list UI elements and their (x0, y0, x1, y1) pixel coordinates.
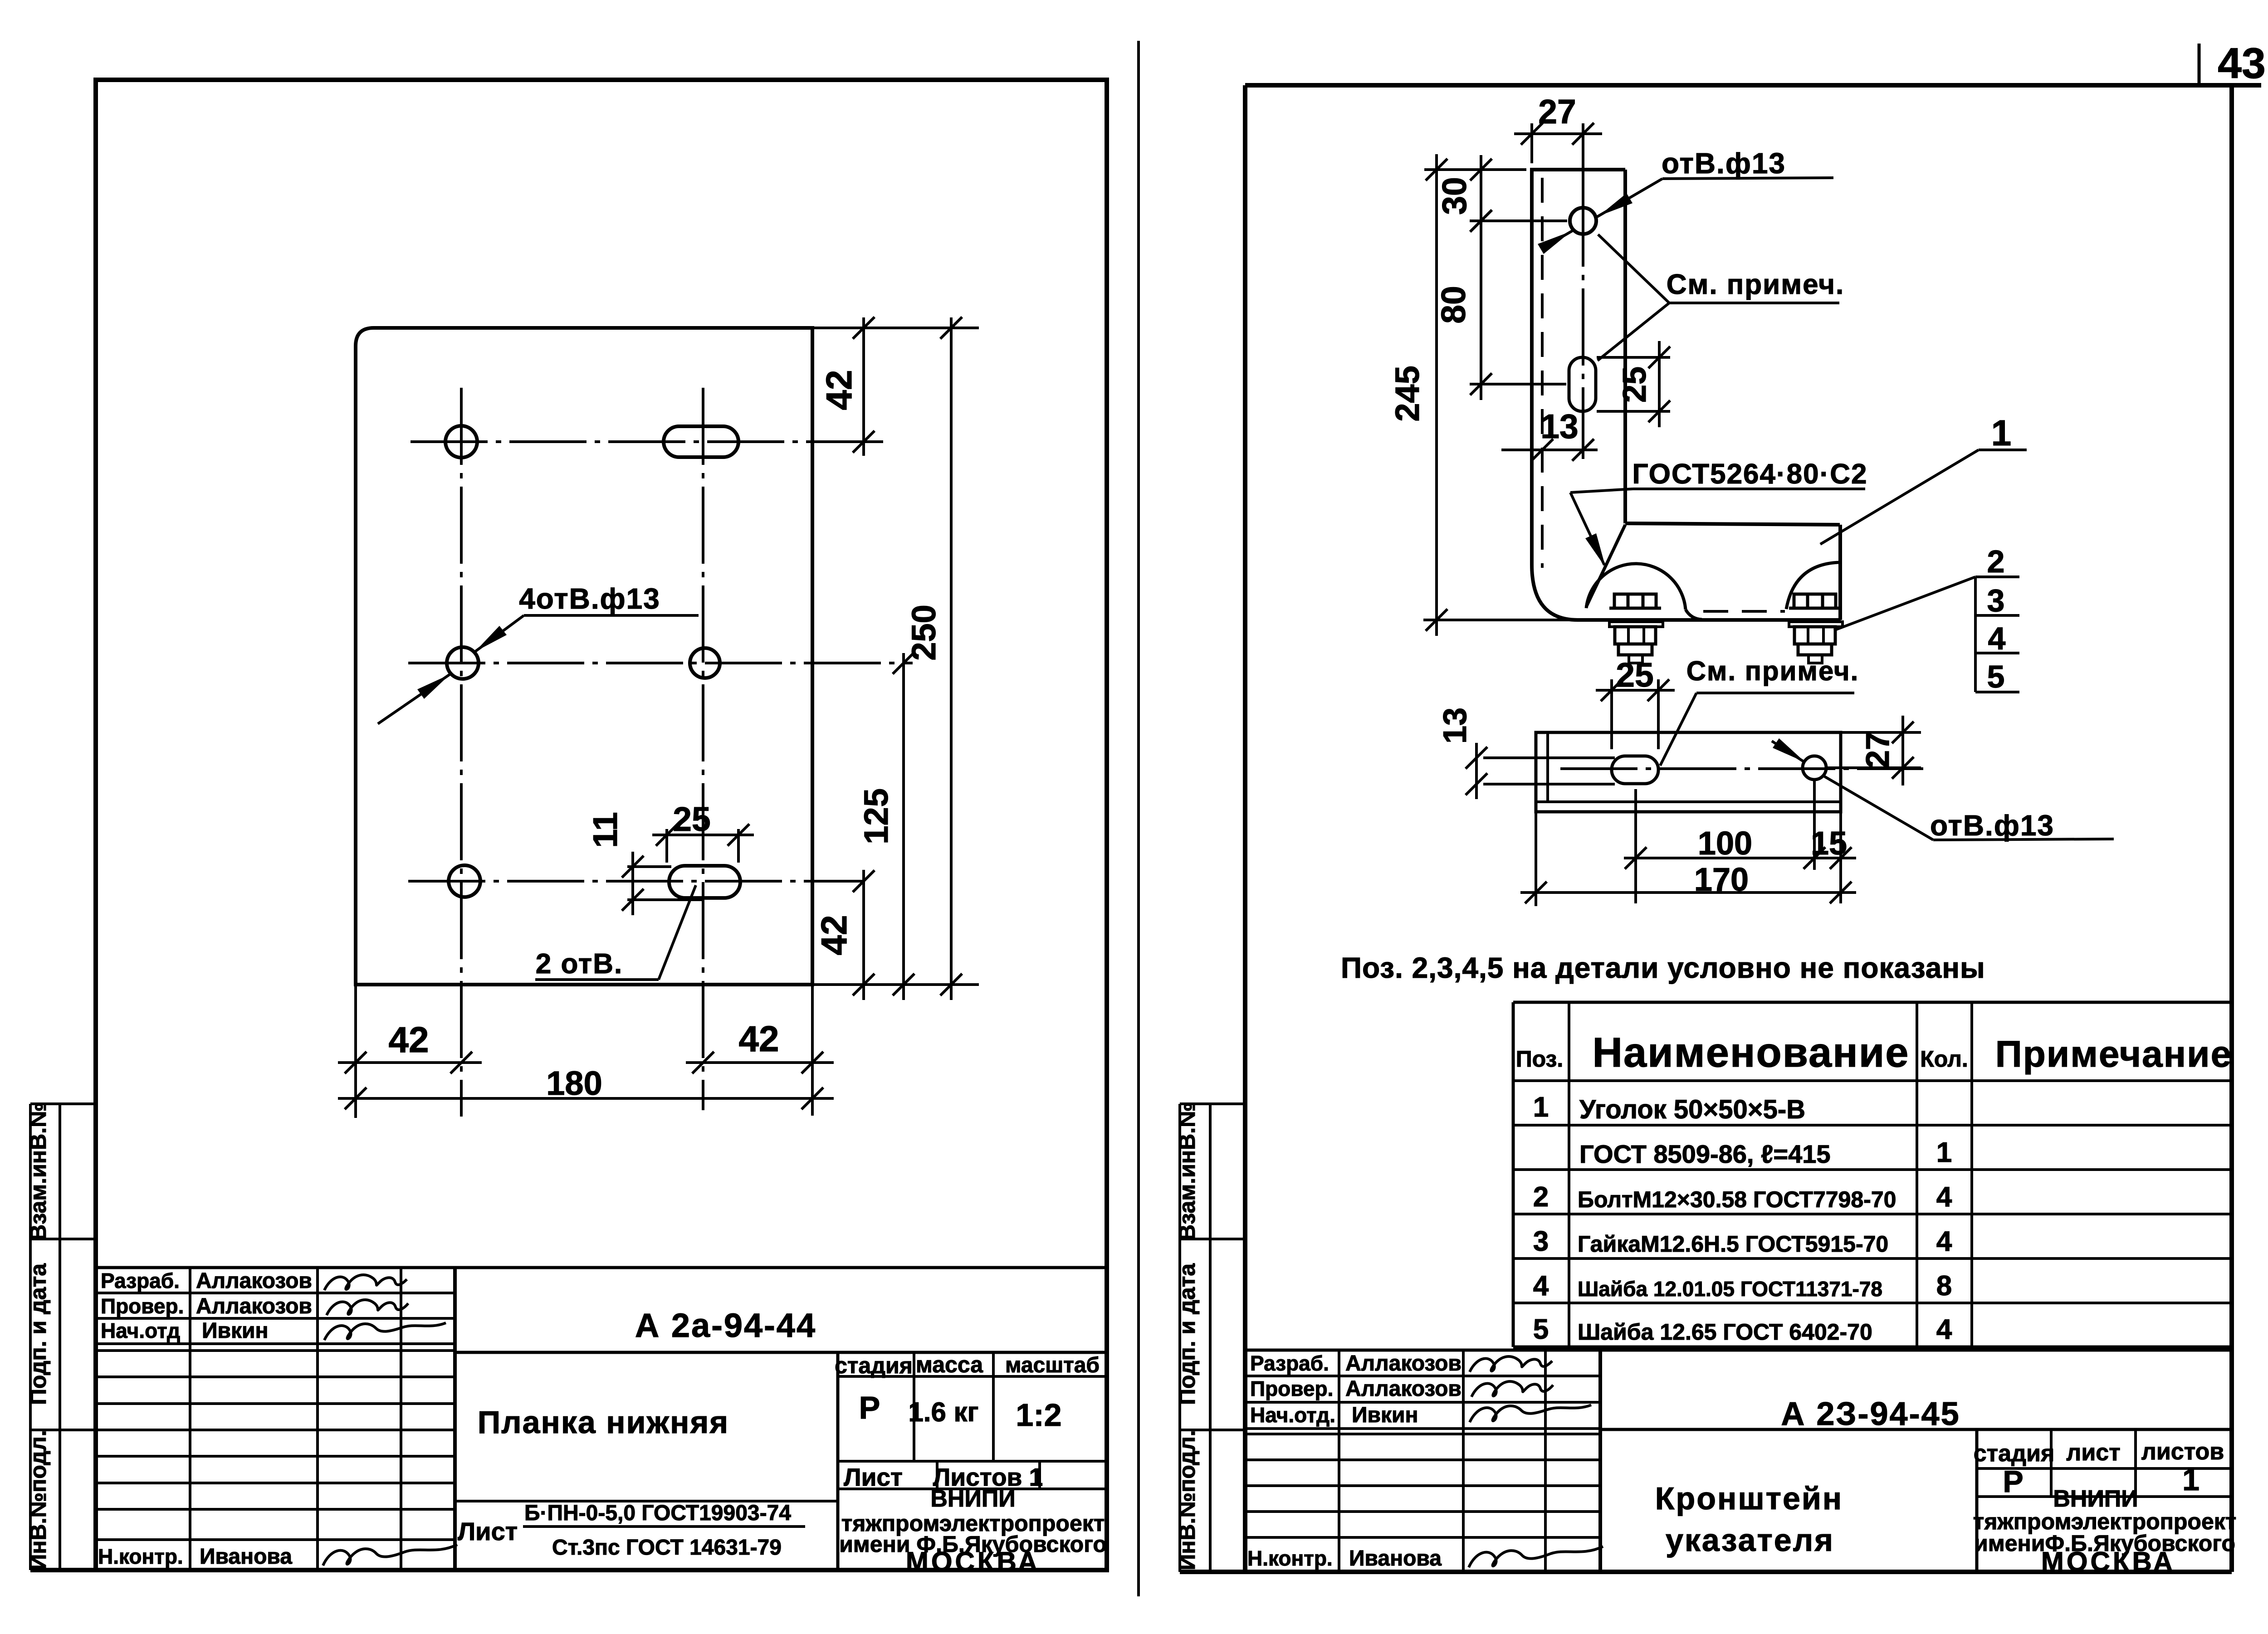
hole d13, middle-left (447, 647, 479, 679)
list / listov row (844, 1463, 1043, 1491)
extension lines below plate (356, 985, 812, 1118)
svg-text:Наименование: Наименование (1593, 1029, 1910, 1076)
vertical leg right edge (1623, 170, 1627, 523)
svg-text:30: 30 (1435, 177, 1473, 215)
svg-text:Н.контр.: Н.контр. (1247, 1546, 1333, 1570)
vertical center line, right hole column (702, 388, 704, 1110)
svg-text:ГОСТ 8509-86, ℓ=415: ГОСТ 8509-86, ℓ=415 (1579, 1140, 1831, 1168)
svg-text:15: 15 (1811, 825, 1847, 862)
svg-text:масштаб: масштаб (1005, 1353, 1100, 1377)
slot 25x11, top-right (664, 426, 738, 457)
svg-text:А 2З-94-45: А 2З-94-45 (1781, 1396, 1960, 1432)
dimension 27 (hole to plate edge) (1826, 716, 1921, 785)
plate outline (Планка нижняя, 180x250) (356, 328, 812, 985)
svg-text:1: 1 (1533, 1092, 1549, 1123)
dimension 25 of bottom slot (652, 800, 754, 863)
svg-text:Поз.: Поз. (1516, 1046, 1564, 1072)
svg-text:43: 43 (2218, 39, 2266, 88)
dimension 80 (hole to slot) (1434, 210, 1566, 400)
horizontal leg right edge (1838, 525, 1842, 620)
right signatures (1469, 1356, 1603, 1567)
svg-text:42: 42 (819, 370, 859, 410)
svg-text:1.6 кг: 1.6 кг (908, 1397, 978, 1427)
svg-text:лист: лист (2066, 1439, 2120, 1466)
parts list table grid (1513, 1002, 2232, 1347)
svg-text:См. примеч.: См. примеч. (1667, 269, 1845, 300)
svg-text:42: 42 (814, 915, 854, 956)
page number 43 (2199, 39, 2266, 88)
label 4 otv. f13 with leader arrows (378, 582, 699, 724)
hole d13, bottom-left (449, 865, 480, 897)
svg-text:4: 4 (1936, 1226, 1952, 1257)
svg-text:2 отВ.: 2 отВ. (536, 948, 623, 980)
svg-text:Ивкин: Ивкин (1352, 1403, 1418, 1427)
svg-text:1: 1 (2182, 1463, 2200, 1497)
svg-text:80: 80 (1434, 286, 1472, 323)
svg-text:Подп. и дата: Подп. и дата (1174, 1263, 1200, 1405)
svg-text:Р: Р (859, 1390, 880, 1425)
svg-text:42: 42 (739, 1019, 779, 1059)
svg-text:ИнВ.№подл.: ИнВ.№подл. (25, 1430, 51, 1570)
row 4: Gaika M12 (1533, 1226, 1952, 1257)
svg-text:отВ.ф13: отВ.ф13 (1662, 147, 1786, 180)
dimension 245 (leg length) (1388, 154, 1575, 636)
svg-text:Взам.инВ.№: Взам.инВ.№ (25, 1102, 51, 1241)
horizontal leg top edge (1625, 523, 1840, 525)
right title block grid (1245, 1350, 2232, 1572)
svg-text:180: 180 (546, 1064, 602, 1102)
svg-text:245: 245 (1388, 366, 1426, 421)
left sheet border frame (96, 80, 1107, 1570)
svg-text:4: 4 (1936, 1314, 1952, 1345)
svg-text:13: 13 (1540, 407, 1578, 445)
flange fold line (1536, 800, 1841, 803)
label otv.f13 (leg hole) with arrows (1538, 147, 1833, 254)
svg-text:27: 27 (1538, 93, 1576, 131)
svg-text:1:2: 1:2 (1016, 1397, 1061, 1433)
parts table header (1516, 1029, 2233, 1076)
vertical center line, left hole column (460, 388, 463, 1117)
svg-text:Нач.отд.: Нач.отд. (1250, 1403, 1335, 1427)
stadija massa masshtab headers (835, 1352, 1100, 1378)
row 6: Shaiba 12.65 (1533, 1314, 1952, 1345)
svg-text:МОСКВА: МОСКВА (906, 1546, 1040, 1577)
left saddle arch (1586, 564, 1686, 610)
right staff rows (1247, 1351, 1461, 1571)
svg-text:Аллакозов: Аллакозов (196, 1294, 312, 1318)
svg-text:Кол.: Кол. (1920, 1046, 1968, 1072)
svg-text:БолтМ12×30.58 ГОСТ7798-70: БолтМ12×30.58 ГОСТ7798-70 (1578, 1187, 1896, 1212)
svg-text:27: 27 (1860, 732, 1896, 768)
center dash line between bolts (1703, 610, 1785, 613)
dimension 27 top of leg (1514, 93, 1602, 206)
label otv.f13 (plate hole) (1824, 776, 2114, 842)
svg-text:125: 125 (857, 788, 895, 844)
slot in plate (horizontal capsule) (1612, 756, 1658, 784)
values P 1.6kg 1:2 (859, 1390, 1062, 1433)
dimension 13 (plate slot width) (1437, 707, 1615, 799)
svg-text:250: 250 (905, 605, 943, 660)
right saddle arch (1786, 562, 1840, 609)
svg-text:Иванова: Иванова (200, 1545, 292, 1569)
svg-text:Разраб.: Разраб. (101, 1269, 180, 1293)
svg-text:указателя: указателя (1666, 1522, 1834, 1558)
svg-text:25: 25 (673, 800, 710, 838)
horizontal center line, middle hole row (408, 662, 913, 664)
dimension 180 (horizontal overall) (338, 1064, 834, 1109)
svg-text:Кронштейн: Кронштейн (1655, 1481, 1843, 1516)
row 1: Ugolok 50x50x5 (1533, 1092, 1805, 1124)
svg-text:ГОСТ5264·80·С2: ГОСТ5264·80·С2 (1632, 458, 1867, 490)
svg-text:стадия: стадия (1974, 1440, 2055, 1467)
svg-text:листов: листов (2141, 1439, 2224, 1465)
svg-text:4: 4 (1936, 1181, 1952, 1213)
signatures (323, 1275, 457, 1566)
dimension 25 (slot length, side view) (1597, 341, 1670, 427)
label 2 otv. with leader (535, 885, 696, 980)
dimension 100 and 15 (1624, 781, 1856, 903)
dimension 30 (top to hole) (1435, 155, 1567, 236)
svg-text:4: 4 (1533, 1270, 1549, 1302)
inner bend diagonal edge (1586, 525, 1625, 607)
svg-text:25: 25 (1616, 656, 1653, 694)
horizontal center line, bottom hole row (408, 880, 865, 883)
svg-text:2: 2 (1987, 544, 2005, 579)
svg-text:25: 25 (1617, 366, 1653, 403)
svg-text:См. примеч.: См. примеч. (1686, 656, 1859, 686)
svg-text:Подп. и дата: Подп. и дата (25, 1263, 51, 1405)
dimension 125 (vertical) (812, 652, 979, 1000)
svg-text:Провер.: Провер. (101, 1294, 184, 1318)
hole d13, top-left (445, 426, 477, 458)
svg-text:ГайкаМ12.6Н.5 ГОСТ5915-70: ГайкаМ12.6Н.5 ГОСТ5915-70 (1578, 1231, 1888, 1257)
row 2: GOST 8509-86 l=415 (1579, 1137, 1952, 1168)
svg-text:Нач.отд: Нач.отд (101, 1319, 180, 1342)
position bracket 2 3 4 5 with leader (1834, 544, 2019, 694)
row 5: Shaiba 12.01.05 (1533, 1270, 1952, 1302)
position label 1 with leader (1820, 413, 2027, 544)
svg-text:2: 2 (1533, 1181, 1549, 1213)
dimension 11 of bottom slot (586, 812, 702, 915)
svg-text:1: 1 (1991, 413, 2012, 453)
bolt M12 right: head, washer, nuts (1789, 594, 1843, 663)
dimension 250 (vertical overall) (905, 317, 962, 1000)
dimension 13 (bend line to slot) (1501, 407, 1598, 461)
svg-text:ВНИПИ: ВНИПИ (2053, 1486, 2138, 1512)
plate center line (1560, 767, 1923, 770)
svg-text:А 2а-94-44: А 2а-94-44 (635, 1307, 816, 1344)
sheet divider line (1137, 41, 1140, 1596)
svg-text:ИнВ.№подл.: ИнВ.№подл. (1174, 1430, 1200, 1570)
svg-text:Аллакозов: Аллакозов (1345, 1377, 1461, 1401)
svg-text:Ивкин: Ивкин (202, 1319, 269, 1343)
svg-text:Р: Р (2003, 1464, 2023, 1499)
title block grid (96, 1268, 1107, 1570)
svg-text:Примечание: Примечание (1995, 1034, 2232, 1075)
hole d13 in leg (1570, 208, 1596, 234)
slot 25x11, bottom-right (669, 866, 740, 898)
svg-text:170: 170 (1694, 862, 1749, 898)
dimension 42 bottom right (horizontal) (686, 1019, 834, 1073)
dimension 25 (plate slot) (1596, 656, 1675, 749)
label Sm. primech. with two leaders (1598, 234, 1844, 361)
organization VNIPI block (839, 1486, 1107, 1577)
horizontal center line, top hole row (411, 440, 888, 443)
bracket plate top view outline (1536, 732, 1841, 812)
label Sm. primech. (plate) with leader (1660, 656, 1859, 766)
stadija list listov headers (1974, 1439, 2224, 1467)
material row: List B-PN GOST (458, 1501, 805, 1560)
svg-text:Аллакозов: Аллакозов (1345, 1351, 1461, 1375)
arrow into plate hole (1772, 738, 1805, 762)
organization VNIPI block right (1973, 1486, 2237, 1577)
svg-text:4: 4 (1988, 621, 2006, 656)
left end fold line (1546, 732, 1549, 802)
svg-text:Б·ПН-0-5,0 ГОСТ19903-74: Б·ПН-0-5,0 ГОСТ19903-74 (524, 1501, 791, 1525)
svg-text:отВ.ф13: отВ.ф13 (1930, 809, 2054, 842)
bend hidden line (dashed) (1541, 178, 1544, 568)
right margin stamp column (1174, 1102, 1245, 1572)
svg-text:Ст.3пс ГОСТ 14631-79: Ст.3пс ГОСТ 14631-79 (552, 1536, 782, 1560)
svg-text:Уголок 50×50×5-В: Уголок 50×50×5-В (1579, 1095, 1805, 1124)
svg-text:Провер.: Провер. (1250, 1377, 1333, 1400)
svg-text:Планка нижняя: Планка нижняя (478, 1405, 729, 1440)
bolt M12 left: head, washer, nuts (1609, 594, 1663, 663)
svg-text:4отВ.ф13: 4отВ.ф13 (519, 582, 660, 615)
svg-text:1: 1 (1936, 1137, 1952, 1168)
svg-text:5: 5 (1533, 1314, 1549, 1345)
hole d13 in plate (1803, 756, 1826, 780)
svg-text:Иванова: Иванова (1349, 1546, 1442, 1571)
svg-text:Н.контр.: Н.контр. (98, 1545, 183, 1568)
hole d13, middle-right (690, 648, 720, 678)
svg-text:Лист: Лист (844, 1463, 903, 1491)
dimension 42 bottom right (vertical) (814, 870, 875, 1000)
left margin stamp column (25, 1102, 96, 1571)
row 3: Bolt M12 (1533, 1181, 1952, 1213)
svg-text:11: 11 (586, 812, 624, 848)
svg-text:МОСКВА: МОСКВА (2041, 1546, 2175, 1577)
svg-text:42: 42 (389, 1019, 429, 1060)
svg-text:Лист: Лист (458, 1517, 518, 1546)
dimension 42 bottom left (horizontal) (338, 1019, 482, 1073)
svg-text:Шайба 12.01.05 ГОСТ11371-78: Шайба 12.01.05 ГОСТ11371-78 (1578, 1277, 1882, 1301)
angle bracket vertical leg outline (1532, 170, 1841, 620)
svg-text:Взам.инВ.№: Взам.инВ.№ (1174, 1102, 1200, 1241)
svg-text:3: 3 (1987, 583, 2005, 618)
svg-text:ВНИПИ: ВНИПИ (930, 1486, 1015, 1512)
svg-text:8: 8 (1936, 1270, 1952, 1302)
svg-text:масса: масса (916, 1352, 983, 1377)
svg-text:стадия: стадия (835, 1353, 913, 1378)
part name Kronshtein ukazatelya (1655, 1481, 1843, 1558)
svg-text:100: 100 (1698, 825, 1752, 862)
dimension 42 top right (vertical) (812, 317, 979, 456)
svg-text:Шайба 12.65 ГОСТ 6402-70: Шайба 12.65 ГОСТ 6402-70 (1578, 1319, 1872, 1345)
svg-text:13: 13 (1437, 707, 1473, 744)
svg-text:Аллакозов: Аллакозов (196, 1269, 312, 1293)
hole center line (vertical) (1582, 190, 1584, 423)
svg-text:3: 3 (1533, 1226, 1549, 1257)
svg-text:5: 5 (1987, 659, 2005, 694)
values P and 1 (2003, 1463, 2200, 1499)
svg-text:Поз. 2,3,4,5 на детали усло: Поз. 2,3,4,5 на детали условно не показа… (1341, 951, 1985, 984)
slot in leg (vertical capsule) (1569, 357, 1596, 411)
weld label GOST5264-80-C2 with leader (1570, 458, 1868, 568)
svg-text:Разраб.: Разраб. (1250, 1351, 1329, 1375)
right sheet border frame (1180, 85, 2261, 1572)
dimension 170 (plate length) (1520, 812, 1856, 906)
staff rows: razrab prover nach.otd n.kontr (98, 1269, 312, 1569)
